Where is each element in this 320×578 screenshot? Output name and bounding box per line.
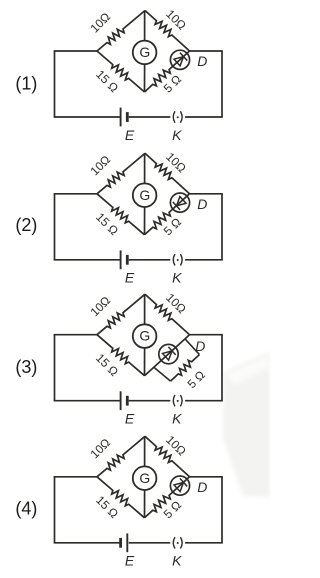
wire: top-left horizontal (circuit 3) [54, 334, 97, 336]
wire: bottom-left to battery (circuit 3) [54, 400, 121, 402]
wire: key to bottom-right corner (circuit 3) [185, 400, 223, 402]
wire: top-left horizontal (circuit 2) [54, 193, 97, 195]
battery E (circuit 1) [120, 108, 122, 127]
wire: parallel branch left segment (circuit 3) [154, 367, 171, 381]
galvanometer G (circuit 1) [133, 41, 157, 65]
svg-text:D: D [197, 479, 207, 495]
wire: top-left horizontal (circuit 4) [54, 476, 97, 478]
wire: left edge (circuit 2) [54, 194, 56, 260]
resistor 5 ohm parallel branch (circuit 3) [171, 355, 200, 382]
resistor 10 ohm upper-right branch (circuit 4) [145, 436, 190, 477]
wire: bottom-left to battery (circuit 1) [54, 116, 121, 118]
svg-text:E: E [125, 270, 135, 286]
svg-text:E: E [125, 553, 135, 569]
resistor 10 ohm upper-left branch (circuit 3) [97, 294, 145, 335]
wire: top-right horizontal (circuit 3) [190, 334, 223, 336]
resistor 10 ohm upper-right branch (circuit 3) [145, 294, 190, 335]
svg-text:K: K [172, 270, 182, 286]
resistor 5 ohm lower-right branch (circuit 4) [145, 477, 190, 518]
resistor 15 ohm lower-left branch (circuit 4) [97, 477, 145, 518]
diode D (circuit 1) [170, 50, 189, 69]
diode D (circuit 3) [159, 344, 178, 363]
wire: battery to key (circuit 4) [129, 542, 171, 544]
wire: left edge (circuit 1) [54, 51, 56, 117]
diode D (circuit 4) [170, 476, 189, 495]
wire: galvanometer to bottom node (circuit 2) [144, 207, 146, 235]
svg-text:(1): (1) [15, 73, 37, 93]
wire: apex to galvanometer (circuit 1) [144, 11, 146, 41]
resistor 15 ohm lower-left branch (circuit 1) [97, 51, 145, 92]
battery E (circuit 2) [120, 250, 122, 269]
resistor 10 ohm upper-right branch (circuit 2) [145, 153, 190, 194]
wire: key to bottom-right corner (circuit 1) [185, 116, 223, 118]
wire: top-right horizontal (circuit 2) [190, 193, 223, 195]
background shading highlight [226, 355, 270, 385]
resistor 5 ohm lower-right branch (circuit 1) [145, 51, 190, 92]
svg-text:G: G [139, 187, 150, 203]
wire: right edge (circuit 1) [221, 51, 223, 117]
svg-text:(3): (3) [15, 357, 37, 377]
svg-text:(2): (2) [15, 215, 37, 235]
wire: galvanometer to bottom node (circuit 1) [144, 64, 146, 92]
wire: galvanometer to bottom node (circuit 3) [144, 348, 146, 376]
svg-text:G: G [139, 44, 150, 60]
wire: key to bottom-right corner (circuit 2) [185, 259, 223, 261]
wire: parallel branch right segment (circuit 3) [185, 339, 199, 354]
wire: apex to galvanometer (circuit 4) [144, 436, 146, 466]
wire: top-right horizontal (circuit 4) [190, 476, 223, 478]
resistor 10 ohm upper-left branch (circuit 1) [97, 11, 145, 52]
wire: bottom-left to battery (circuit 4) [54, 542, 121, 544]
svg-text:K: K [172, 411, 182, 427]
wire: top-left horizontal (circuit 1) [54, 50, 97, 52]
resistor 15 ohm lower-left branch (circuit 3) [97, 335, 145, 376]
galvanometer G (circuit 4) [133, 466, 157, 490]
wire: battery to key (circuit 2) [129, 259, 171, 261]
svg-text:D: D [197, 53, 207, 69]
resistor 5 ohm lower-right branch (circuit 2) [145, 194, 190, 235]
galvanometer G (circuit 3) [133, 324, 157, 348]
battery E (circuit 3) [120, 391, 122, 410]
svg-text:K: K [172, 127, 182, 143]
wire: key to bottom-right corner (circuit 4) [185, 542, 223, 544]
wire: left edge (circuit 4) [54, 477, 56, 543]
wire: left edge (circuit 3) [54, 335, 56, 401]
wire: galvanometer to bottom node (circuit 4) [144, 490, 146, 518]
svg-text:G: G [139, 328, 150, 344]
wire: right edge (circuit 3) [221, 335, 223, 401]
wire: right edge (circuit 4) [221, 477, 223, 543]
svg-text:D: D [195, 338, 205, 354]
galvanometer G (circuit 2) [133, 183, 157, 207]
svg-text:G: G [139, 470, 150, 486]
wire: bottom-left to battery (circuit 2) [54, 259, 121, 261]
wire: apex to galvanometer (circuit 3) [144, 294, 146, 324]
wire: battery to key (circuit 1) [129, 116, 171, 118]
wire: right edge (circuit 2) [221, 194, 223, 260]
key K (circuit 3) [173, 395, 175, 406]
wire: apex to galvanometer (circuit 2) [144, 153, 146, 183]
svg-text:E: E [125, 411, 135, 427]
resistor 15 ohm lower-left branch (circuit 2) [97, 194, 145, 235]
wire: battery to key (circuit 3) [129, 400, 171, 402]
svg-text:K: K [172, 553, 182, 569]
key K (circuit 4) [173, 537, 175, 548]
svg-text:(4): (4) [15, 498, 37, 518]
svg-text:E: E [125, 127, 135, 143]
wire: top-right horizontal (circuit 1) [190, 50, 223, 52]
wire: diagonal lower-right branch (circuit 3) [145, 335, 190, 376]
svg-text:D: D [197, 196, 207, 212]
key K (circuit 1) [173, 111, 175, 122]
diode D (circuit 2) [170, 193, 189, 212]
key K (circuit 2) [173, 254, 175, 265]
resistor 10 ohm upper-left branch (circuit 4) [97, 436, 145, 477]
resistor 10 ohm upper-right branch (circuit 1) [145, 11, 190, 52]
battery E (circuit 4) [126, 533, 128, 552]
resistor 10 ohm upper-left branch (circuit 2) [97, 153, 145, 194]
background shading wedge [223, 352, 270, 497]
